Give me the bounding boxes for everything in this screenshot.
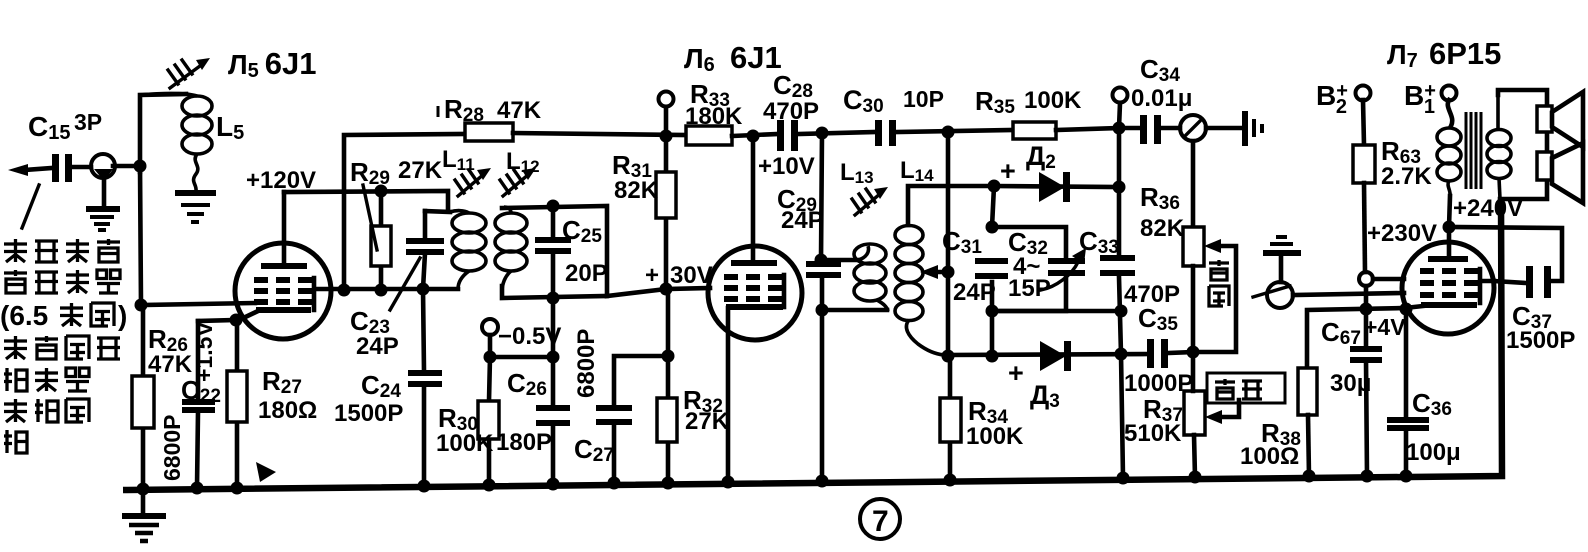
label R35 100K <box>975 86 1082 118</box>
svg-text:24P: 24P <box>953 279 996 306</box>
capacitor C24 <box>408 289 442 485</box>
node: junction C15/L5 <box>134 160 147 173</box>
jack J3 <box>1253 282 1293 308</box>
label C31 24P <box>942 226 996 306</box>
resistor R28 <box>465 123 513 141</box>
resistor R33 <box>686 126 732 145</box>
resistor R37 (pot) <box>1184 352 1205 477</box>
chinese pseudo text ji <box>4 430 27 453</box>
label C15 3P <box>28 109 102 144</box>
resistor R29 <box>371 191 391 290</box>
svg-text:180K: 180K <box>685 103 743 130</box>
label C34 0.01u <box>1131 54 1192 112</box>
capacitor C28 <box>777 120 798 151</box>
R37 wiper arrow from volume label <box>1205 400 1239 424</box>
coil L12 <box>495 207 527 292</box>
svg-text:15P: 15P <box>1008 275 1051 302</box>
wire jack to node <box>113 164 141 169</box>
label C67 +4V 30u <box>1321 314 1406 397</box>
wire grid2 to tube2 <box>666 288 710 289</box>
svg-text:100Ω: 100Ω <box>1240 443 1299 470</box>
plate wire to C37 <box>1494 281 1526 283</box>
trimmer C32 loop <box>992 227 1066 311</box>
earphone ground symbol <box>1245 111 1262 146</box>
svg-text:3P: 3P <box>74 109 102 135</box>
tube V3 connector and plate exit <box>1480 269 1494 303</box>
label D2 + <box>1000 141 1056 186</box>
resistor R26 <box>132 305 154 489</box>
terminal circle top bus <box>659 92 674 143</box>
label D3 + <box>1008 358 1060 412</box>
resistor R38 <box>1298 368 1317 476</box>
tube V1 grids (dashed) <box>254 280 312 302</box>
svg-text:7: 7 <box>872 505 889 538</box>
wire C30 to R35 <box>896 130 1013 132</box>
svg-text:27K: 27K <box>685 408 730 435</box>
label C30 10P <box>843 85 944 117</box>
speaker 1 <box>1537 92 1583 147</box>
tube V3 grids <box>1420 271 1478 295</box>
tube V1 (6J1) envelope <box>235 243 331 339</box>
label R29 27K <box>350 157 443 189</box>
chinese pseudo text yin (tone) <box>1209 260 1229 280</box>
node R29 top <box>375 185 388 198</box>
svg-text:82K: 82K <box>614 177 659 204</box>
capacitor C27 <box>596 350 675 483</box>
svg-text:(6.5: (6.5 <box>0 300 48 331</box>
resistor R31 <box>656 136 676 289</box>
R36 wiper <box>1197 239 1236 352</box>
tank top wire C23/L11 <box>425 211 450 212</box>
resistor R27 <box>227 320 247 488</box>
annotation leader line <box>22 185 39 228</box>
coil L13 <box>854 244 888 311</box>
cathode1 node and wire <box>198 314 243 327</box>
svg-text:180P: 180P <box>496 429 552 456</box>
capacitor C15 <box>52 154 72 182</box>
capacitor C32 (trimmer) <box>1041 248 1086 290</box>
resistor R34 <box>940 356 961 479</box>
input arrow <box>8 164 52 176</box>
label C37 1500P <box>1506 301 1575 354</box>
chinese pseudo text di er ban yin <box>4 239 120 262</box>
grid2 node <box>660 283 673 296</box>
svg-text:+4V: +4V <box>1364 314 1406 340</box>
wire grid node to tube1 grid <box>141 303 255 305</box>
label C24 1500P <box>334 370 403 427</box>
output transformer secondary <box>1487 95 1511 199</box>
wire detector line to D3 <box>944 354 1147 355</box>
tube V2 (6J1) envelope <box>708 246 802 340</box>
capacitor C23 <box>406 211 444 289</box>
svg-text:180Ω: 180Ω <box>258 397 317 424</box>
svg-text:100K: 100K <box>1024 87 1082 114</box>
svg-text:510K: 510K <box>1124 420 1182 447</box>
wire R35 to C34 node <box>1056 128 1119 130</box>
wire grid3 from jack J3 <box>1293 293 1404 295</box>
tank L12 bottom wire <box>502 286 607 298</box>
terminal B+2 <box>1356 86 1371 146</box>
svg-text:+: + <box>1000 156 1016 186</box>
label R30 100K <box>436 403 494 457</box>
tube V3 screen lead <box>1447 227 1452 258</box>
svg-text:+230V: +230V <box>1367 220 1437 247</box>
wire +120V screen rail <box>284 191 448 211</box>
tube V1 cathode <box>237 310 311 321</box>
tube V3 (6P15) envelope <box>1402 242 1494 334</box>
svg-text:27K: 27K <box>398 157 443 184</box>
capacitor C34 <box>1119 115 1161 144</box>
wire tank top to L13 <box>822 258 860 263</box>
svg-text:+: + <box>1008 358 1024 388</box>
capacitor C37 <box>1526 266 1551 298</box>
speaker 2 <box>1537 143 1583 203</box>
svg-text:Л56J1: Л56J1 <box>228 46 317 82</box>
coil L14 <box>895 226 944 356</box>
wire primary bottom to plate node <box>1449 196 1450 227</box>
tube V1 screen bar <box>261 263 307 269</box>
wire R33 to plate node <box>732 134 777 136</box>
jack J2 <box>1161 115 1243 141</box>
wire screen to tube3 <box>1373 277 1404 282</box>
label R27 180 <box>258 366 317 424</box>
svg-text:100K: 100K <box>966 423 1024 450</box>
wire node up and to L5 <box>140 94 186 172</box>
tube V1 anode connector and exit <box>314 278 331 310</box>
leader R29 <box>363 185 377 250</box>
svg-text:470P: 470P <box>763 98 819 125</box>
terminal B+1 <box>1442 86 1457 127</box>
trimmer arrow L12 <box>500 168 536 196</box>
label C36 100u <box>1406 388 1461 466</box>
tube V3 screen bar <box>1428 256 1468 262</box>
label R33 180K <box>685 79 743 130</box>
svg-text:6800P: 6800P <box>573 329 600 398</box>
wire L12 bottom down to -0.5V node <box>551 298 556 357</box>
tick mark before R28 label <box>437 106 440 117</box>
svg-text:20P: 20P <box>565 260 608 287</box>
capacitor C36 <box>1387 303 1429 477</box>
tank bottom wire <box>822 308 887 313</box>
svg-text:+1.5V: +1.5V <box>191 321 217 382</box>
label C26 180P <box>496 368 552 456</box>
screen tie point <box>1359 272 1373 286</box>
terminal -0.5V <box>482 319 561 357</box>
svg-text:1500P: 1500P <box>334 400 403 427</box>
wire C33 bottom to bus <box>1121 354 1123 477</box>
wire C28 to C30 <box>798 132 875 134</box>
svg-text:82K: 82K <box>1140 215 1185 242</box>
chinese pseudo text yin liang (volume) <box>1215 379 1262 399</box>
chinese pseudo text lai zi shi pin <box>4 336 120 359</box>
chinese pseudo text zhao he <box>60 303 114 326</box>
label R36 82K <box>1140 182 1185 242</box>
speaker wiring <box>1498 90 1547 199</box>
node anode junctions <box>338 283 430 297</box>
svg-text:100K: 100K <box>436 430 494 457</box>
tube V2 connector <box>782 275 787 307</box>
label R26 47K <box>148 324 193 378</box>
label R28 47K <box>444 94 542 126</box>
wire jack down to R36 <box>1191 141 1196 227</box>
main ground symbol <box>122 490 166 541</box>
label C35 1000P <box>1124 303 1193 397</box>
ground under jack <box>86 209 120 230</box>
capacitor C26 <box>536 357 570 483</box>
resistor R36 (pot) <box>1183 227 1204 352</box>
wire -0.5V node <box>490 355 553 360</box>
coil L14 top lead <box>908 186 994 225</box>
svg-text:): ) <box>118 300 127 331</box>
arrow annotation at bus <box>256 462 276 482</box>
wire C34 node down D2 cathode to C33 <box>1119 128 1121 354</box>
wire anode to top bus <box>344 134 465 290</box>
resistor R35 <box>1013 122 1056 139</box>
wire C15 to jack <box>72 165 91 170</box>
diode D3 <box>1040 341 1071 371</box>
trimmer arrow L11 <box>455 168 491 196</box>
svg-text:100μ: 100μ <box>1406 439 1461 466</box>
wire node down to grid node <box>140 166 141 305</box>
L14 tap arrow <box>920 265 948 279</box>
svg-text:1500P: 1500P <box>1506 327 1575 354</box>
label R31 82K <box>612 150 659 204</box>
coil L5 <box>140 93 212 191</box>
trimmer arrow L13 <box>852 187 888 215</box>
anode node wire <box>331 287 458 292</box>
tube V2 grids <box>724 277 782 299</box>
svg-text:+: + <box>645 262 659 289</box>
label R63 27K <box>1381 136 1432 190</box>
jack J1 (input test point) <box>91 154 115 207</box>
svg-text:+10V: +10V <box>758 153 815 180</box>
inverted ground above J3 <box>1263 237 1301 282</box>
label C25 20P <box>562 215 608 287</box>
label C32 4~15P <box>1008 227 1051 302</box>
capacitor C25 <box>535 200 571 305</box>
transformer core <box>1466 112 1481 189</box>
svg-text:24P: 24P <box>781 207 824 234</box>
label C23 24P <box>350 258 420 360</box>
label R37 510K <box>1124 394 1183 447</box>
capacitor C67 <box>1350 349 1382 476</box>
wire bus node down through tap to detector <box>946 132 951 356</box>
svg-text:0.01μ: 0.01μ <box>1131 85 1192 112</box>
chinese pseudo text mo ji ping <box>4 399 89 422</box>
page number 7 <box>860 499 900 539</box>
resistor R30 <box>478 357 499 484</box>
wire D2 anode node down to C31 <box>992 186 994 356</box>
tube V2 cathode <box>726 307 783 478</box>
svg-text:6P15: 6P15 <box>1429 36 1501 71</box>
svg-text:6800P: 6800P <box>159 414 185 481</box>
tube V2 plate lead <box>751 136 756 262</box>
capacitor C31 <box>975 261 1008 276</box>
wire C28 node down to tank <box>821 133 822 260</box>
diode D2 <box>1039 172 1070 202</box>
svg-text:−0.5V: −0.5V <box>498 323 561 350</box>
wire L14 top to D2 <box>994 186 1119 187</box>
svg-text:10P: 10P <box>903 86 944 112</box>
label R32 27K <box>683 385 730 435</box>
resistor R32 <box>657 289 677 481</box>
svg-text:24P: 24P <box>356 333 399 360</box>
tube V1 screen lead from +120V <box>282 192 287 263</box>
tube V3 cathode <box>1405 305 1477 308</box>
label C29 24P <box>777 184 824 234</box>
svg-text:47K: 47K <box>497 97 542 124</box>
output transformer primary <box>1437 128 1461 196</box>
capacitor C35 <box>1147 339 1168 368</box>
label C28 470P <box>763 70 819 125</box>
wire C37 up to plate supply <box>1449 227 1562 281</box>
label R38 100 <box>1240 418 1301 470</box>
node grid1 <box>135 299 148 312</box>
cathode wire <box>1307 308 1405 368</box>
capacitor C33 <box>1100 258 1135 273</box>
chinese pseudo text zhong pin xin hao <box>4 270 120 293</box>
label C33 470P <box>1079 226 1180 308</box>
terminal circle above C34 node <box>1113 88 1128 129</box>
tank L12 top wire <box>502 206 666 296</box>
ground bus <box>123 199 1502 490</box>
label volume (chinese, boxed) <box>1207 373 1285 403</box>
wire tank bottom to bus <box>820 310 825 479</box>
chinese pseudo text zhi (tone) <box>1209 286 1229 306</box>
capacitor C29 <box>806 260 841 310</box>
svg-text:2.7K: 2.7K <box>1381 163 1432 190</box>
label R34 100K <box>966 396 1024 450</box>
tube V2 plate bar <box>731 260 777 266</box>
trimmer arrow L5 <box>168 58 210 88</box>
chinese pseudo text fang da qi <box>4 368 89 391</box>
ground under L5 <box>175 193 216 222</box>
wire tie down to C67 <box>1364 286 1369 346</box>
capacitor C22 <box>182 321 215 487</box>
svg-text:47K: 47K <box>148 351 193 378</box>
wire C35 to R37 node <box>1168 352 1193 353</box>
svg-text:30μ: 30μ <box>1330 370 1371 397</box>
bus junction dots <box>137 470 1413 496</box>
capacitor C30 <box>875 120 896 146</box>
coil L11 <box>450 211 486 289</box>
wire R28 to R33 <box>513 133 686 135</box>
wire input to C15 <box>24 168 52 170</box>
resistor R63 <box>1353 145 1375 272</box>
